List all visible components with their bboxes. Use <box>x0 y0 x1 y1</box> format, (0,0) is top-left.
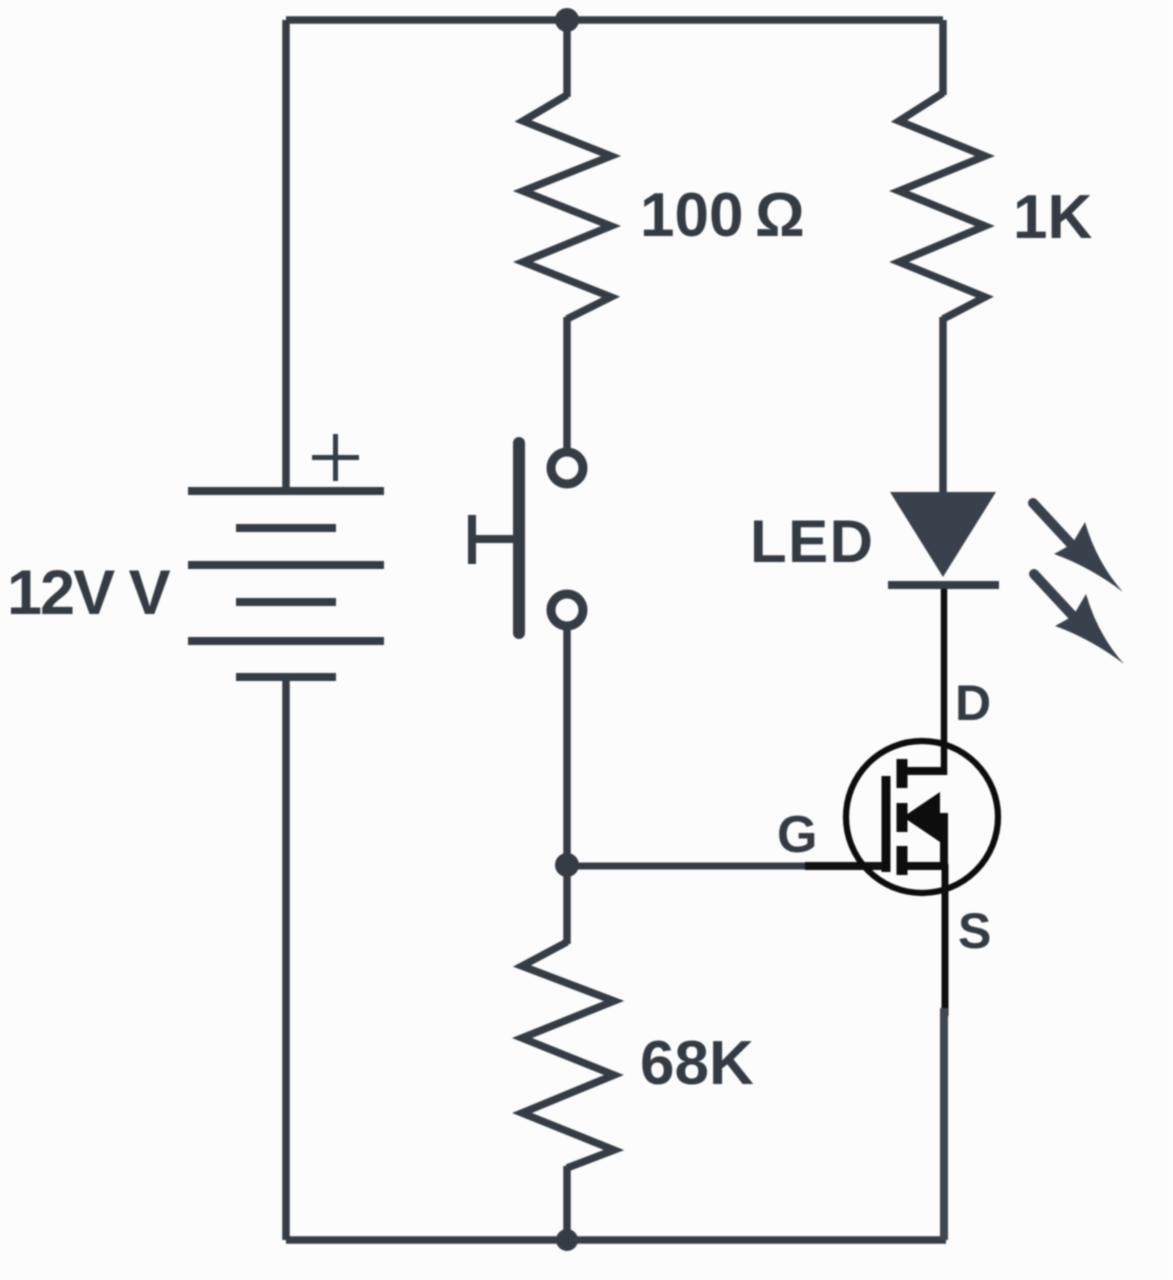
LED D1 triangle <box>890 492 996 577</box>
battery plus sign <box>312 434 359 481</box>
switch actuator bar <box>513 443 525 633</box>
MOSFET body arrow <box>903 792 940 842</box>
svg-text:Ω: Ω <box>755 181 805 250</box>
LED arrow 1 <box>1033 503 1123 592</box>
wire gate horizontal <box>567 863 820 870</box>
switch top contact circle <box>551 452 583 484</box>
wire top rail to resistor R2 <box>939 20 947 95</box>
wire 68K to bottom rail <box>563 1166 571 1240</box>
LED cathode bar <box>888 581 999 589</box>
MOSFET channel segment top <box>897 759 908 788</box>
svg-text:LED: LED <box>750 508 875 575</box>
MOSFET body circle <box>846 741 998 893</box>
switch plunger shaft <box>472 535 513 543</box>
wire top rail <box>286 16 943 24</box>
wire switch to gate node <box>563 629 571 868</box>
svg-text:G: G <box>777 806 817 864</box>
node A top junction <box>555 8 579 32</box>
node C bottom junction <box>556 1229 578 1251</box>
wire MOSFET source down <box>942 864 949 1016</box>
switch plunger cap <box>468 515 476 564</box>
svg-text:100: 100 <box>640 181 743 250</box>
battery V1 plates <box>188 491 384 677</box>
svg-text:1K: 1K <box>1013 183 1092 252</box>
MOSFET channel segment middle <box>897 803 908 832</box>
wire gate node to 68K <box>563 865 571 944</box>
wire R2 to LED <box>939 317 947 494</box>
switch bottom contact circle <box>551 594 583 626</box>
LED arrow 2 <box>1034 574 1124 664</box>
resistor R3 68K zigzag <box>522 942 614 1168</box>
svg-text:68K: 68K <box>640 1029 754 1098</box>
svg-text:D: D <box>955 675 991 731</box>
MOSFET channel segment bottom <box>897 846 908 875</box>
transistor Q1 MOSFET <box>846 741 998 893</box>
wire junction to resistor R1 <box>563 20 571 97</box>
wire bottom rail <box>286 1236 946 1244</box>
pushbutton switch S1 <box>472 443 583 633</box>
wire left vertical (battery +) <box>282 20 290 491</box>
MOSFET drain contact <box>902 767 944 775</box>
svg-text:12V V: 12V V <box>7 558 171 628</box>
MOSFET gate bar <box>882 776 891 872</box>
MOSFET source contact <box>902 817 944 866</box>
wire LED to MOSFET drain <box>941 589 948 775</box>
wire R1 to switch <box>563 317 571 449</box>
wire battery - down <box>282 677 290 1240</box>
svg-text:S: S <box>958 903 991 959</box>
resistor R2 1K zigzag <box>899 93 985 319</box>
node B gate junction <box>555 853 579 877</box>
resistor R1 100 ohm zigzag <box>523 95 611 319</box>
